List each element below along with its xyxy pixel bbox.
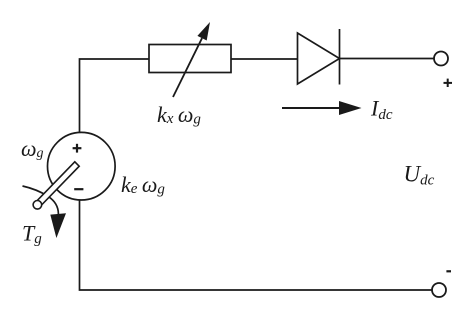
shaft end circle (33, 201, 42, 210)
generator plus mark (73, 144, 82, 153)
wire resistor to diode (231, 58, 298, 60)
rotation arrowhead (50, 213, 66, 238)
terminal negative (432, 271, 451, 297)
svg-text:ke ωg: ke ωg (121, 172, 165, 198)
wire generator top to resistor (80, 59, 150, 133)
wire diode to positive terminal (340, 58, 435, 60)
wire generator bottom to negative terminal (80, 200, 433, 291)
generator G1 (48, 132, 116, 200)
shaft rod (35, 162, 79, 207)
svg-text:ωg: ωg (21, 136, 44, 161)
svg-text:Idc: Idc (370, 96, 393, 124)
resistor Rx adjustment arrow (173, 22, 210, 97)
svg-text:Tg: Tg (22, 221, 42, 247)
diode D1 (298, 29, 340, 85)
resistor Rx (variable) body (149, 45, 231, 73)
svg-text:kx ωg: kx ωg (157, 102, 201, 128)
current arrow Idc (282, 101, 362, 115)
terminal positive (434, 52, 452, 88)
rotation arrow arc Tg (23, 186, 59, 214)
svg-text:Udc: Udc (404, 162, 435, 189)
generator minus mark (74, 188, 83, 190)
